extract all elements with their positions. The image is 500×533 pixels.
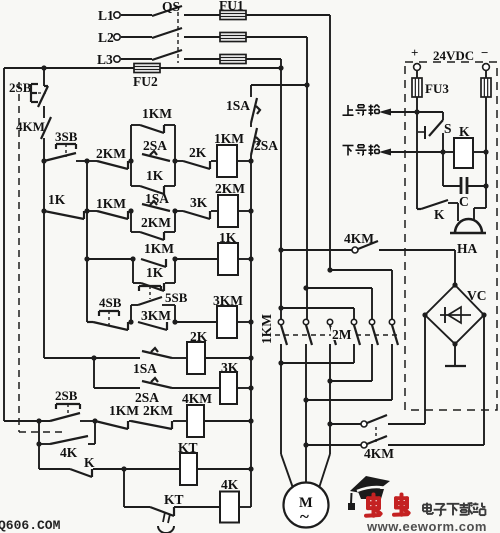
- wire S to node N1: [442, 133, 444, 152]
- svg-text:L2: L2: [98, 30, 114, 45]
- wire coil KT to rail: [197, 468, 251, 470]
- wire rail jog: [44, 357, 94, 359]
- contact 1KM rung1 top branch: [140, 106, 172, 133]
- wire QS to FU1 L2: [184, 36, 220, 38]
- svg-text:2M: 2M: [332, 327, 352, 342]
- node rung1 x175: [172, 158, 177, 163]
- motor M: [284, 483, 329, 528]
- svg-text:24VDC: 24VDC: [433, 48, 474, 63]
- capacitor C: [443, 152, 486, 209]
- fuse FU1 (3 fuses): [219, 0, 246, 64]
- svg-text:1SA: 1SA: [226, 98, 250, 113]
- coil KT: [178, 440, 198, 485]
- watermark cap logo: [348, 476, 390, 510]
- wire contact3 out: [329, 344, 331, 454]
- wire phase A down: [280, 68, 282, 322]
- contact 4KM (brake feed): [344, 231, 378, 253]
- svg-text:1SA: 1SA: [133, 361, 157, 376]
- wire brake feed to VC top: [379, 250, 455, 285]
- node - terminal: [481, 45, 489, 70]
- wire rung5 left: [94, 357, 140, 359]
- node 4K branch left: [36, 441, 41, 446]
- wire rung6 to coil: [172, 387, 220, 389]
- coil 2K: [187, 329, 208, 374]
- svg-text:4KM: 4KM: [364, 446, 394, 461]
- coil 1K: [218, 230, 238, 275]
- wire FU2 line: [4, 67, 281, 69]
- node rung2 x131: [128, 208, 133, 213]
- node + terminal: [411, 45, 420, 70]
- dashed enclosure 24VDC: [405, 62, 497, 410]
- node rung3 x133: [130, 256, 135, 261]
- wire rung9 drop: [123, 469, 125, 507]
- wire phase C (L1) top run: [246, 15, 330, 270]
- tie 2M c6 to B: [303, 344, 392, 403]
- svg-text:~: ~: [300, 507, 309, 526]
- contact 2KM rung2 bottom branch: [140, 215, 171, 240]
- wire rung6 drop: [93, 358, 95, 388]
- contact 1KM rung7: [95, 403, 139, 429]
- node rail/rung3 right: [248, 256, 253, 261]
- ground (below VC): [445, 344, 466, 366]
- svg-text:C: C: [459, 194, 469, 209]
- svg-text:4KM: 4KM: [182, 391, 212, 406]
- coil 2KM: [215, 181, 245, 227]
- watermark www.eeworm.com: [366, 519, 487, 533]
- svg-text:1K: 1K: [146, 265, 164, 280]
- node rail/rung6 right: [248, 385, 253, 390]
- contact KT rung9 (time delay): [124, 492, 184, 533]
- contact 1SA (rail): [226, 98, 260, 123]
- watermark site name (dianzi xiazaizhan): [423, 503, 485, 516]
- node rung3 x175: [172, 256, 177, 261]
- svg-text:2KM: 2KM: [96, 146, 126, 161]
- label 2M: [331, 327, 353, 342]
- node rung7 x95: [92, 418, 97, 423]
- wire VC right leg: [483, 315, 485, 445]
- svg-text:1K: 1K: [146, 168, 164, 183]
- label upper guide wheel (shang dao lun): [343, 105, 380, 116]
- wire motor lead C: [319, 454, 330, 488]
- pushbutton 4SB: [87, 295, 128, 330]
- svg-text:2KM: 2KM: [143, 403, 173, 418]
- svg-text:QS: QS: [162, 0, 180, 14]
- svg-text:2SB: 2SB: [55, 388, 78, 403]
- svg-text:2SA: 2SA: [254, 138, 278, 153]
- parallel branch rung3 frame: [133, 259, 175, 283]
- wire QS to FU1 L3: [184, 58, 220, 60]
- node rail/rung8 right: [248, 466, 253, 471]
- jumper 2M top from C: [327, 267, 392, 319]
- fuse FU3: [412, 70, 449, 97]
- svg-text:1KM: 1KM: [259, 314, 274, 344]
- pushbutton 2SB (top, NC): [9, 80, 48, 107]
- contact 4KM (on left rail, NO): [16, 117, 51, 139]
- svg-text:HA: HA: [457, 241, 478, 256]
- parallel branch rung4 frame: [131, 305, 175, 322]
- contact 1KM rung3: [141, 241, 174, 267]
- wire coil 3K to rail: [237, 387, 251, 389]
- dashed enclosure left: [19, 82, 65, 432]
- coil 1KM: [214, 131, 244, 177]
- wire coil 4KM to rail: [204, 420, 251, 422]
- wire left rail upper: [43, 68, 45, 358]
- svg-text:4K: 4K: [60, 445, 78, 460]
- pushbutton 3SB: [44, 129, 87, 161]
- svg-text:4K: 4K: [221, 477, 239, 492]
- svg-text:−: −: [481, 45, 488, 60]
- watermark chongchong (red): [366, 495, 409, 516]
- svg-text:4KM: 4KM: [16, 119, 45, 134]
- node L2 terminal: [98, 30, 120, 45]
- pushbutton 2SB (bottom): [50, 388, 95, 421]
- wire phase B down: [306, 85, 308, 322]
- wire - rail to HA: [474, 152, 486, 221]
- wire coil 3KM to rail: [237, 321, 251, 323]
- wire + rail: [416, 97, 418, 209]
- svg-text:www.eeworm.com: www.eeworm.com: [366, 519, 487, 533]
- wire coil 1KM to rail: [237, 160, 251, 162]
- svg-text:2SB: 2SB: [9, 80, 32, 95]
- svg-text:L1: L1: [98, 8, 114, 23]
- svg-text:FU3: FU3: [425, 81, 449, 96]
- svg-text:3KM: 3KM: [141, 308, 171, 323]
- wire QS to FU1 L1: [184, 14, 220, 16]
- node rung1 x131: [128, 158, 133, 163]
- node - rail / C: [483, 183, 488, 188]
- wire - rail upper: [485, 97, 487, 152]
- contact 4KM pair to VC: [303, 415, 484, 461]
- node + rail tap: [414, 109, 419, 114]
- node L1 terminal: [98, 8, 120, 23]
- node junction A/FU2: [278, 65, 283, 70]
- svg-text:S: S: [444, 121, 452, 136]
- svg-text:4SB: 4SB: [99, 295, 122, 310]
- node rail/rung7 right: [248, 418, 253, 423]
- wire motor lead A: [281, 454, 293, 488]
- node rung4 x175: [172, 319, 177, 324]
- tie 2M c5 to C: [327, 344, 372, 384]
- wire rung3 left: [87, 258, 133, 260]
- svg-text:Q606.COM: Q606.COM: [0, 518, 61, 533]
- branch 4K frame: [39, 421, 95, 444]
- contact K (for HA): [417, 200, 458, 222]
- svg-text:2K: 2K: [189, 145, 207, 160]
- svg-text:1KM: 1KM: [144, 241, 174, 256]
- wire rung5 to coil: [172, 357, 187, 359]
- wire right rail main: [250, 155, 252, 507]
- node rail/rung5 right: [248, 355, 253, 360]
- wire contact1 out: [280, 344, 282, 454]
- contact 2SA rung6: [135, 378, 172, 405]
- contact 2SA rung1: [142, 138, 170, 161]
- svg-text:3K: 3K: [190, 195, 208, 210]
- svg-text:VC: VC: [467, 288, 487, 303]
- node L3 terminal: [97, 52, 120, 67]
- switch S: [417, 112, 452, 139]
- node rung8 x124: [121, 466, 126, 471]
- wire brake feed: [278, 247, 352, 252]
- node rail/rung4 right: [248, 319, 253, 324]
- svg-text:K: K: [434, 207, 445, 222]
- coil 4K: [220, 477, 239, 523]
- wire rail top link: [251, 84, 307, 86]
- wire coil 1K to rail: [238, 258, 251, 260]
- contact 1SA rung5: [133, 348, 172, 376]
- arrow lower guide wheel: [379, 149, 443, 156]
- svg-text:K: K: [459, 124, 470, 139]
- svg-text:1KM: 1KM: [142, 106, 172, 121]
- rectifier VC bridge: [422, 282, 486, 346]
- fuse FU2: [133, 64, 160, 90]
- svg-text:2KM: 2KM: [215, 181, 245, 196]
- coil 3KM: [213, 293, 243, 338]
- svg-text:5SB: 5SB: [165, 290, 188, 305]
- node N1: [440, 149, 445, 154]
- switch QS (3-pole knife switch): [152, 0, 182, 63]
- parallel branch rung1 frame: [131, 125, 175, 186]
- wire rung9 to coil: [174, 506, 220, 508]
- arrow upper guide wheel: [379, 109, 417, 116]
- wire right rail seg1: [250, 85, 252, 97]
- contact 1K rung3 bottom branch: [141, 265, 164, 291]
- contact 3KM rung4: [138, 308, 171, 330]
- linkage dashed (contact row): [275, 334, 398, 336]
- node rung2 x87: [84, 208, 89, 213]
- wire phase A (L3) top run: [246, 59, 281, 68]
- svg-text:FU1: FU1: [219, 0, 244, 13]
- contact K rung8: [39, 455, 124, 477]
- wire right rail seg2: [250, 123, 252, 127]
- contact 1KM rung2: [87, 196, 128, 219]
- svg-text:1K: 1K: [48, 192, 66, 207]
- label lower guide wheel (xia dao lun): [343, 145, 380, 156]
- wire L1 to QS: [121, 14, 152, 16]
- wire rung8 to coil: [124, 468, 180, 470]
- wire left boundary: [3, 68, 5, 421]
- coil 4KM: [182, 391, 212, 437]
- label 1KM (rotated): [259, 314, 274, 344]
- node rung5 x94: [91, 355, 96, 360]
- contact 2K rung1: [175, 145, 217, 169]
- node junction left-rail/FU2: [41, 65, 46, 70]
- wire VC left leg: [424, 315, 426, 424]
- wire rung3 to coil: [175, 258, 218, 260]
- relay coil K: [443, 124, 486, 168]
- node rung3 x87: [84, 256, 89, 261]
- contact 3K rung2: [175, 195, 218, 219]
- node rung2 x175: [172, 208, 177, 213]
- svg-text:KT: KT: [164, 492, 184, 507]
- node rung1 x87: [84, 158, 89, 163]
- node rung7 x39: [36, 418, 41, 423]
- jumper 2M top from B: [303, 285, 372, 319]
- svg-text:1KM: 1KM: [214, 131, 244, 146]
- contact 4K rung7 branch: [50, 436, 88, 460]
- svg-text:3SB: 3SB: [55, 129, 78, 144]
- watermark Q606.COM: [0, 518, 61, 533]
- wire L3 to QS: [121, 58, 152, 60]
- pushbutton 5SB (NC): [138, 286, 188, 305]
- parallel branch rung2 frame: [131, 211, 175, 232]
- node rail/rung1: [41, 158, 46, 163]
- node rung4 x131: [128, 319, 133, 324]
- wire rung7 left: [4, 420, 50, 422]
- svg-text:1KM: 1KM: [96, 196, 126, 211]
- wire L2 to QS: [121, 36, 152, 38]
- node rail/rung2: [41, 208, 46, 213]
- contact 2KM rung7: [131, 403, 187, 429]
- jumper 2M top from A: [278, 305, 354, 319]
- wire rung6 left: [94, 387, 140, 389]
- label 24VDC: [433, 48, 474, 63]
- contact 1K rung2: [44, 192, 84, 219]
- wire phase B (L2) top run: [246, 37, 307, 85]
- node rail/rung2 right: [248, 208, 253, 213]
- wire coil 2K to rail: [205, 357, 251, 359]
- wire rung4 to coil: [175, 321, 217, 323]
- svg-text:1KM: 1KM: [109, 403, 139, 418]
- svg-text:+: +: [411, 45, 418, 60]
- wire rail2 x87: [86, 161, 88, 322]
- node rail/phaseB: [304, 82, 309, 87]
- tie 2M c4 to A: [278, 344, 354, 366]
- contact 1K rung1 bottom branch: [140, 168, 164, 194]
- svg-text:2KM: 2KM: [141, 215, 171, 230]
- contact 1SA rung2: [142, 191, 170, 211]
- horn HA: [450, 219, 486, 256]
- wire coil 4K to rail: [239, 506, 251, 508]
- svg-text:FU2: FU2: [133, 74, 158, 89]
- wire coil 2KM to rail: [238, 210, 251, 212]
- svg-text:K: K: [84, 455, 95, 470]
- contactor main contacts 1KM and 2M: [278, 319, 398, 345]
- node - rail / K coil: [483, 149, 488, 154]
- svg-text:L3: L3: [97, 52, 113, 67]
- node rail/rung1 right: [248, 158, 253, 163]
- wire contact2 out: [305, 344, 307, 484]
- fuse (minus rail): [481, 70, 491, 97]
- coil 3K: [220, 360, 239, 404]
- contact 2SA (rail): [251, 128, 278, 155]
- contact 2KM rung1: [87, 146, 128, 169]
- wire rung8 drop: [38, 444, 40, 469]
